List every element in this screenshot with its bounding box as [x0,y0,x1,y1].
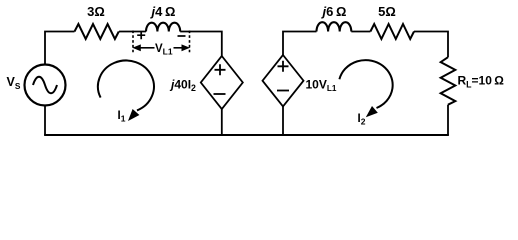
svg-text:j4 Ω: j4 Ω [150,4,176,19]
mesh current arrow I2 [339,60,392,108]
wire j6 to 5-ohm [351,31,370,33]
plus inside U1 [215,64,226,75]
wire U2 to bottom [282,106,284,135]
bottom wire [44,134,449,136]
dependent source U1 j40I2 diamond [201,56,243,109]
resistor RL vertical [441,57,456,105]
dependent source U2 10VL1 diamond [263,55,304,106]
VL1 arrow left [140,47,155,49]
minus inside U1 [214,93,226,95]
wire 5-ohm to top right corner down to RL [414,32,448,58]
minus inside U2 [277,90,289,92]
wire 3-ohm to inductor [119,31,146,33]
mesh current arrow I1 [98,61,154,111]
svg-text:VL1: VL1 [155,43,173,57]
svg-text:RL=10 Ω: RL=10 Ω [458,74,505,90]
wire U1 to bottom [221,109,223,135]
VL1 arrow right [174,47,184,49]
resistor R 3-ohm [75,24,119,39]
svg-text:I2: I2 [358,113,366,127]
svg-text:3Ω: 3Ω [87,4,105,19]
svg-text:10VL1: 10VL1 [306,77,337,93]
inductor j4-ohm [146,23,180,32]
resistor 5-ohm [370,24,414,39]
inductor j6-ohm [317,22,352,31]
wire RL to bottom right corner [447,105,449,135]
voltage source VS [25,65,66,106]
svg-text:j6 Ω: j6 Ω [321,4,347,19]
svg-text:I1: I1 [118,110,126,124]
plus inside U2 [278,61,289,72]
wire top-left from Vs to 3-ohm [45,32,75,65]
svg-text:j40I2: j40I2 [169,77,196,93]
svg-text:VS: VS [7,75,21,91]
svg-text:5Ω: 5Ω [378,4,396,19]
wire Vs bottom [44,106,46,136]
wire U2 top to top wire [283,32,317,56]
dashed marker left inductor terminal [132,31,134,54]
wire inductor to corner, down to dep source 1 [180,32,222,57]
minus polarity of VL1 [178,35,186,37]
dashed marker right inductor terminal [189,31,191,54]
plus polarity of VL1 [137,31,145,39]
